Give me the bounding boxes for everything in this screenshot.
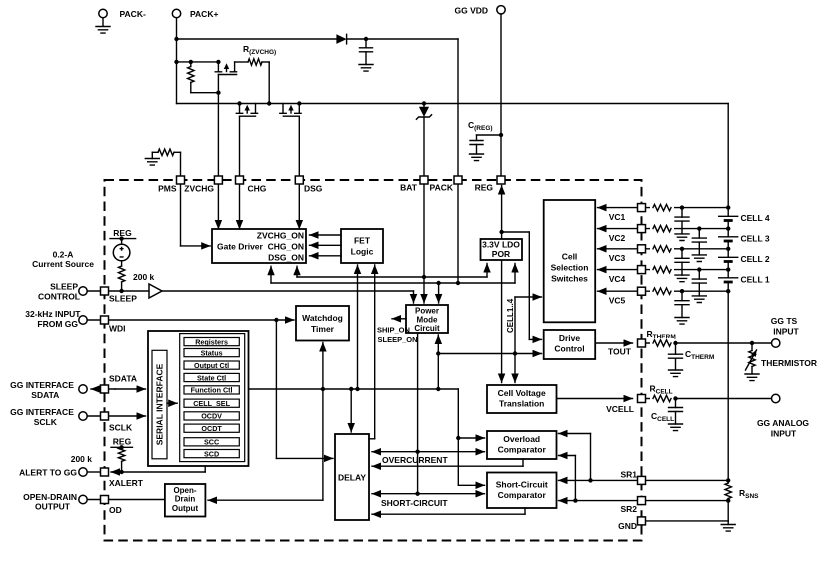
node bus DELAY junction <box>349 387 353 391</box>
svg-text:FET: FET <box>354 236 371 246</box>
node SLEEP junction <box>119 289 123 293</box>
wire OD line <box>87 499 165 501</box>
terminal SLEEP CONTROL <box>79 287 87 295</box>
block Gate Driver <box>212 229 306 263</box>
wire SLEEP to Power Mode Circuit <box>162 290 414 292</box>
svg-text:Output Ctl: Output Ctl <box>194 361 229 370</box>
terminal OPEN-DRAIN OUTPUT <box>79 495 87 503</box>
node FET midpoint <box>267 101 271 105</box>
capacitor VC1 <box>681 208 683 218</box>
svg-text:Control: Control <box>554 344 584 354</box>
wire VC2 external <box>646 228 729 230</box>
svg-text:ZVCHG_ON: ZVCHG_ON <box>257 231 304 241</box>
svg-text:200 k: 200 k <box>133 272 155 282</box>
wire line A to Gate Driver <box>296 266 298 277</box>
svg-text:REG: REG <box>113 228 132 238</box>
wire CELL bus to Drive Control <box>438 353 541 355</box>
node VC3 cap junction <box>680 247 684 251</box>
svg-text:INPUT: INPUT <box>773 327 799 337</box>
node R_SNS bottom <box>726 498 730 502</box>
resistor R(ZVCHG) <box>235 61 248 63</box>
svg-text:SHORT-CIRCUIT: SHORT-CIRCUIT <box>381 498 448 508</box>
svg-text:Comparator: Comparator <box>498 490 547 500</box>
svg-text:0.2-A: 0.2-A <box>53 250 74 260</box>
svg-text:XALERT: XALERT <box>109 478 144 488</box>
svg-text:Translation: Translation <box>499 399 544 409</box>
register CELL_SEL <box>184 399 239 407</box>
svg-text:THERMISTOR: THERMISTOR <box>761 358 817 368</box>
pin ZVCHG <box>214 176 222 184</box>
pin SLEEP <box>101 287 109 295</box>
capacitor C_THERM <box>675 343 677 354</box>
wire Short-Circuit Comparator to DELAY <box>524 508 526 514</box>
svg-text:Selection: Selection <box>551 263 589 273</box>
wire SR1 line <box>591 479 729 481</box>
svg-text:Watchdog: Watchdog <box>302 313 343 323</box>
block Serial Interface outer <box>148 331 249 466</box>
wire PMS pin to Gate Driver <box>180 152 182 246</box>
resistor gate pull-up <box>190 62 192 67</box>
svg-text:Current Source: Current Source <box>32 259 94 269</box>
wire OVERCURRENT to DELAY <box>372 451 418 453</box>
svg-text:SDATA: SDATA <box>109 374 137 384</box>
svg-text:SR2: SR2 <box>620 504 637 514</box>
wire main FET rail <box>177 103 729 105</box>
svg-text:SCLK: SCLK <box>109 423 133 433</box>
svg-text:Switches: Switches <box>551 274 588 284</box>
pin VC4 <box>638 266 646 274</box>
wire VC1 to Cell Selection Switches <box>598 207 642 209</box>
terminal GG INTERFACE SDATA <box>79 385 87 393</box>
node CELL bus branch <box>513 351 517 355</box>
node SHORT-CIRCUIT junction <box>415 492 419 496</box>
resistor PMS pull-down with ground <box>145 159 159 166</box>
svg-text:SCD: SCD <box>204 449 219 458</box>
node BAT junction line A <box>422 275 426 279</box>
battery CELL 4 <box>719 215 738 217</box>
wire VC4 external <box>646 269 729 271</box>
transistor Q3 DSG FET <box>282 104 284 114</box>
pin PMS <box>177 176 185 184</box>
svg-text:VC4: VC4 <box>609 274 626 284</box>
node R_SNS top <box>726 478 730 482</box>
register Status <box>184 349 239 357</box>
svg-text:ALERT TO GG: ALERT TO GG <box>19 468 77 478</box>
block Overload Comparator <box>487 431 557 459</box>
svg-text:CHG: CHG <box>248 184 267 194</box>
wire SLEEP line <box>87 290 149 292</box>
svg-text:Gate Driver: Gate Driver <box>217 242 264 252</box>
svg-text:OUTPUT: OUTPUT <box>35 502 71 512</box>
resistor 200 k SLEEP <box>118 266 124 282</box>
battery CELL 3 <box>719 236 738 238</box>
svg-text:WDI: WDI <box>109 324 126 334</box>
wire to Overload Comparator upper <box>458 437 484 439</box>
resistor VC2 <box>650 224 674 234</box>
node PACK+ top junction <box>174 37 178 41</box>
pin SCLK <box>101 412 109 420</box>
capacitor VC4 <box>698 270 700 280</box>
svg-text:Comparator: Comparator <box>498 445 547 455</box>
svg-text:REG: REG <box>113 437 132 447</box>
node SR2 junction <box>573 498 577 502</box>
terminal GG TS INPUT <box>772 339 780 347</box>
block Drive Control <box>544 330 596 359</box>
pin DSG <box>295 176 303 184</box>
node VC5 cap junction <box>680 289 684 293</box>
resistor 200 k XALERT <box>118 447 124 461</box>
wire bus to Open-Drain Output <box>322 389 324 500</box>
svg-text:Timer: Timer <box>311 324 335 334</box>
wire to Short-Circuit Comparator upper <box>458 484 484 486</box>
wire Q1 gate to ZVCHG pin and Gate Driver <box>217 75 219 230</box>
svg-text:SLEEP: SLEEP <box>50 282 78 292</box>
node WDI junction <box>274 318 278 322</box>
wire SR2 to Short-Circuit Comparator <box>559 500 576 502</box>
terminal PACK+ <box>172 9 180 17</box>
wire WDI to Watchdog Timer <box>87 319 294 321</box>
register SCC <box>184 438 239 446</box>
pin VC3 <box>638 245 646 253</box>
resistor R_SNS <box>727 480 729 483</box>
node pull resistor tap <box>189 60 193 64</box>
svg-text:CELL 1: CELL 1 <box>741 274 770 284</box>
svg-text:Logic: Logic <box>351 247 374 257</box>
wire FET Logic to DSG_ON <box>310 255 342 257</box>
terminal WDI <box>79 316 87 324</box>
svg-text:200 k: 200 k <box>71 454 93 464</box>
ground R_SNS <box>727 521 729 525</box>
register State Ctl <box>184 373 239 381</box>
svg-text:VCELL: VCELL <box>606 404 634 414</box>
node OVERCURRENT junction <box>415 450 419 454</box>
wire SR2 line <box>575 500 728 502</box>
wire VC4 to Cell Selection Switches <box>598 269 642 271</box>
svg-text:CELL 3: CELL 3 <box>741 233 770 243</box>
wire Q2 gate to CHG pin and Gate Driver <box>239 116 241 229</box>
svg-text:REG: REG <box>475 183 494 193</box>
resistor R_THERM <box>650 338 674 348</box>
wire FET Logic to ZVCHG_ON <box>310 234 342 236</box>
wire bus corner to comparators <box>457 389 459 485</box>
node DSG source <box>297 101 301 105</box>
svg-text:INPUT: INPUT <box>771 429 797 439</box>
wire VC2 to Cell Selection Switches <box>598 228 642 230</box>
wire top rail to diode <box>177 38 337 40</box>
wire PACK pin vertical <box>457 39 459 283</box>
node bus PMC junction <box>436 387 440 391</box>
register Registers <box>184 338 239 346</box>
node bus FET Logic junction <box>355 387 359 391</box>
node REG internal junction <box>499 230 503 234</box>
wire TOUT output <box>595 342 632 344</box>
node C(REG) tap <box>499 133 503 137</box>
wire PMC output vertical <box>417 333 419 494</box>
battery CELL 2 <box>719 256 738 258</box>
svg-text:SCC: SCC <box>204 438 219 447</box>
capacitor on PACK line <box>365 39 367 48</box>
svg-text:SR1: SR1 <box>620 470 637 480</box>
svg-text:Drive: Drive <box>559 333 581 343</box>
svg-text:POR: POR <box>492 249 510 259</box>
node REG rail <box>110 238 136 240</box>
node Q1 source <box>216 60 220 64</box>
block FET Logic <box>341 229 383 263</box>
wire register bus <box>249 388 459 390</box>
svg-text:PACK-: PACK- <box>120 9 146 19</box>
svg-text:Overload: Overload <box>503 434 540 444</box>
wire SHIP_ON SLEEP_ON out <box>392 318 406 320</box>
node XALERT REG rail <box>111 446 133 448</box>
zener diode D2 to BAT pin <box>423 104 425 107</box>
svg-text:OCDT: OCDT <box>201 424 222 433</box>
block SERIAL INTERFACE bar <box>152 350 167 459</box>
pin RTHERM <box>638 339 646 347</box>
wire bus to FET Logic <box>357 265 359 389</box>
transistor Q2 CHG FET <box>239 104 241 114</box>
svg-text:PACK: PACK <box>430 183 454 193</box>
wire line B to Gate Driver <box>270 266 272 283</box>
svg-text:CHG_ON: CHG_ON <box>268 242 304 252</box>
node VC4 cap junction <box>697 267 701 271</box>
pin WDI <box>101 316 109 324</box>
pin XALERT <box>101 468 109 476</box>
wire line B to LDO POR <box>514 264 516 284</box>
wire battery bottom to SR1 <box>727 282 729 480</box>
wire REG to Drive Control <box>502 231 530 233</box>
wire battery link <box>727 262 729 278</box>
register SCD <box>184 450 239 458</box>
svg-text:VC1: VC1 <box>609 212 626 222</box>
resistor VC3 <box>650 244 674 254</box>
block Watchdog Timer <box>296 306 349 341</box>
node C_THERM junction <box>673 341 677 345</box>
svg-text:SERIAL INTERFACE: SERIAL INTERFACE <box>155 363 165 445</box>
wire REG to Cell Voltage Translation <box>501 232 503 383</box>
svg-text:CELL1..4: CELL1..4 <box>506 298 515 333</box>
svg-text:DSG: DSG <box>304 184 323 194</box>
wire diode to PACK pin corner <box>347 38 458 40</box>
wire VC1 external <box>646 207 729 209</box>
wire RTHERM line <box>646 342 772 344</box>
wire VC3 to Cell Selection Switches <box>598 248 642 250</box>
register OCDT <box>184 424 239 432</box>
wire VC5 external <box>646 290 729 292</box>
resistor VC4 <box>650 265 674 275</box>
node VC3 cell junction <box>726 247 730 251</box>
wire DELAY to FET Logic <box>369 438 375 440</box>
pin GND <box>638 517 646 525</box>
block Cell Selection Switches <box>544 200 596 322</box>
diode D1 <box>336 34 346 44</box>
svg-text:ZVCHG: ZVCHG <box>184 184 214 194</box>
thermistor <box>751 343 753 351</box>
svg-text:SDATA: SDATA <box>31 390 59 400</box>
resistor VC5 <box>650 286 674 296</box>
wire BAT pin vertical <box>423 117 425 277</box>
wire line B to Power Mode Circuit <box>438 283 440 303</box>
node bus WT junction <box>321 387 325 391</box>
wire GND line <box>646 520 729 522</box>
svg-text:OVERCURRENT: OVERCURRENT <box>382 455 448 465</box>
svg-text:PMS: PMS <box>158 184 177 194</box>
wire Q3 gate to DSG pin and Gate Driver <box>298 116 300 229</box>
wire PACK+ vertical rail <box>176 18 178 104</box>
block register file <box>180 334 245 462</box>
node VC1 cap junction <box>680 205 684 209</box>
svg-text:GG ANALOG: GG ANALOG <box>757 418 809 428</box>
node SR1 junction <box>588 478 592 482</box>
wire SDATA bidirectional <box>91 388 115 390</box>
svg-text:CELL 2: CELL 2 <box>741 254 770 264</box>
svg-text:BAT: BAT <box>400 183 418 193</box>
wire VCELL output <box>557 398 633 400</box>
pin PACK <box>454 176 462 184</box>
wire bus to DELAY <box>350 389 352 432</box>
register Function Ctl <box>184 386 239 394</box>
svg-text:Cell: Cell <box>562 252 578 262</box>
wire OVERCURRENT to Overload Comparator <box>418 451 485 453</box>
wire WDI to DELAY <box>275 320 277 458</box>
wire SHORT-CIRCUIT to DELAY <box>372 493 418 495</box>
wire Overload Comparator to DELAY <box>522 459 524 466</box>
wire SHORT-CIRCUIT to Short-Circuit Comparator <box>418 493 485 495</box>
block Cell Voltage Translation <box>487 385 557 413</box>
register Output Ctl <box>184 361 239 369</box>
wire SR1 to Overload Comparator <box>590 434 592 481</box>
node VC2 cell junction <box>726 226 730 230</box>
wire VCELL line <box>646 398 772 400</box>
block Short-Circuit Comparator <box>487 473 557 509</box>
pin VC1 <box>638 204 646 212</box>
capacitor VC5 <box>681 291 683 301</box>
svg-text:GG INTERFACE: GG INTERFACE <box>10 380 74 390</box>
wire bus to Watchdog Timer <box>322 343 324 390</box>
svg-text:TOUT: TOUT <box>608 347 632 357</box>
IC boundary dashed box <box>105 180 642 541</box>
svg-text:CELL 4: CELL 4 <box>741 213 770 223</box>
pin OD <box>101 496 109 504</box>
svg-text:OD: OD <box>109 505 122 515</box>
node comparator branch <box>456 436 460 440</box>
wire XALERT to terminal <box>87 471 100 473</box>
terminal GG ANALOG INPUT <box>772 394 780 402</box>
pin BAT <box>420 176 428 184</box>
node PACK junction line B <box>456 281 460 285</box>
battery CELL 1 <box>719 277 738 279</box>
wire SCLK <box>87 415 145 417</box>
wire serial interface to registers <box>167 402 177 404</box>
node VC2 cap junction <box>697 226 701 230</box>
svg-text:SCLK: SCLK <box>34 417 58 427</box>
pin SDATA <box>101 385 109 393</box>
svg-text:Registers: Registers <box>195 337 228 346</box>
node VC4 cell junction <box>726 267 730 271</box>
wire CELL bus to Cell Selection Switches <box>514 297 516 354</box>
wire line A to LDO POR <box>486 264 488 278</box>
svg-text:OPEN-DRAIN: OPEN-DRAIN <box>23 492 77 502</box>
buffer SLEEP <box>149 284 162 298</box>
pin CHG <box>236 176 244 184</box>
node C_CELL junction <box>673 396 677 400</box>
svg-text:State Ctl: State Ctl <box>197 373 226 382</box>
svg-text:GG VDD: GG VDD <box>455 6 489 16</box>
wire battery link <box>727 221 729 237</box>
pin REG <box>497 176 505 184</box>
wire VC5 to Cell Selection Switches <box>598 290 642 292</box>
svg-text:SLEEP: SLEEP <box>109 294 137 304</box>
pin VCELL <box>638 395 646 403</box>
svg-text:Short-Circuit: Short-Circuit <box>496 480 548 490</box>
svg-text:32-kHz INPUT: 32-kHz INPUT <box>25 309 81 319</box>
capacitor VC2 <box>698 229 700 239</box>
wire BAT line A <box>297 276 487 278</box>
node line B junction <box>436 281 440 285</box>
svg-text:Circuit: Circuit <box>414 324 440 333</box>
svg-text:VC3: VC3 <box>609 253 626 263</box>
pin VC5 <box>638 287 646 295</box>
capacitor VC3 <box>681 249 683 258</box>
current source 0.2-A <box>121 239 123 245</box>
resistor R_CELL <box>650 394 674 404</box>
svg-text:VC2: VC2 <box>609 233 626 243</box>
svg-text:Power: Power <box>415 307 439 316</box>
wire BAT to Power Mode Circuit <box>423 277 425 303</box>
capacitor C(REG) <box>477 134 502 136</box>
node VC5 cell junction <box>726 289 730 293</box>
ground terminal PACK- <box>99 9 107 17</box>
wire SR1 to Short-Circuit Comparator <box>559 479 591 481</box>
register OCDV <box>184 412 239 420</box>
svg-text:SLEEP_ON: SLEEP_ON <box>378 335 418 344</box>
wire SR2 to Overload Comparator <box>574 456 576 501</box>
resistor VC1 <box>650 203 674 213</box>
wire XALERT from serial interface <box>204 466 206 472</box>
wire battery stack top <box>727 104 729 217</box>
wire bus to Power Mode Circuit <box>437 335 439 389</box>
capacitor C_CELL <box>675 399 677 408</box>
node VC1 cell junction <box>726 205 730 209</box>
wire second rail <box>177 61 219 63</box>
terminal GG INTERFACE SCLK <box>79 412 87 420</box>
wire battery link <box>727 241 729 257</box>
wire VC3 external <box>646 248 729 250</box>
block DELAY <box>335 434 369 520</box>
block 3.3V LDO POR <box>481 239 523 260</box>
svg-text:Cell Voltage: Cell Voltage <box>498 388 546 398</box>
svg-text:GND: GND <box>618 521 637 531</box>
svg-text:DSG_ON: DSG_ON <box>268 253 304 263</box>
svg-text:OCDV: OCDV <box>201 412 222 421</box>
node CELL bus junction <box>436 351 440 355</box>
svg-text:GG INTERFACE: GG INTERFACE <box>10 407 74 417</box>
block Open-Drain Output <box>165 484 206 517</box>
svg-text:3.3V LDO: 3.3V LDO <box>482 240 520 250</box>
node Q1 gate junction <box>216 91 220 95</box>
wire PACK line B <box>271 282 515 284</box>
wire GG VDD to REG pin <box>500 14 502 180</box>
pin VC2 <box>638 225 646 233</box>
pin SR1 <box>638 476 646 484</box>
svg-text:Function Ctl: Function Ctl <box>191 386 233 395</box>
svg-text:CONTROL: CONTROL <box>38 292 80 302</box>
svg-text:Drain: Drain <box>175 495 196 504</box>
wire FET Logic to CHG_ON <box>310 244 342 246</box>
node CHG drain <box>237 101 241 105</box>
svg-text:VC5: VC5 <box>609 296 626 306</box>
svg-text:Output: Output <box>172 504 199 513</box>
node zener tap <box>422 101 426 105</box>
